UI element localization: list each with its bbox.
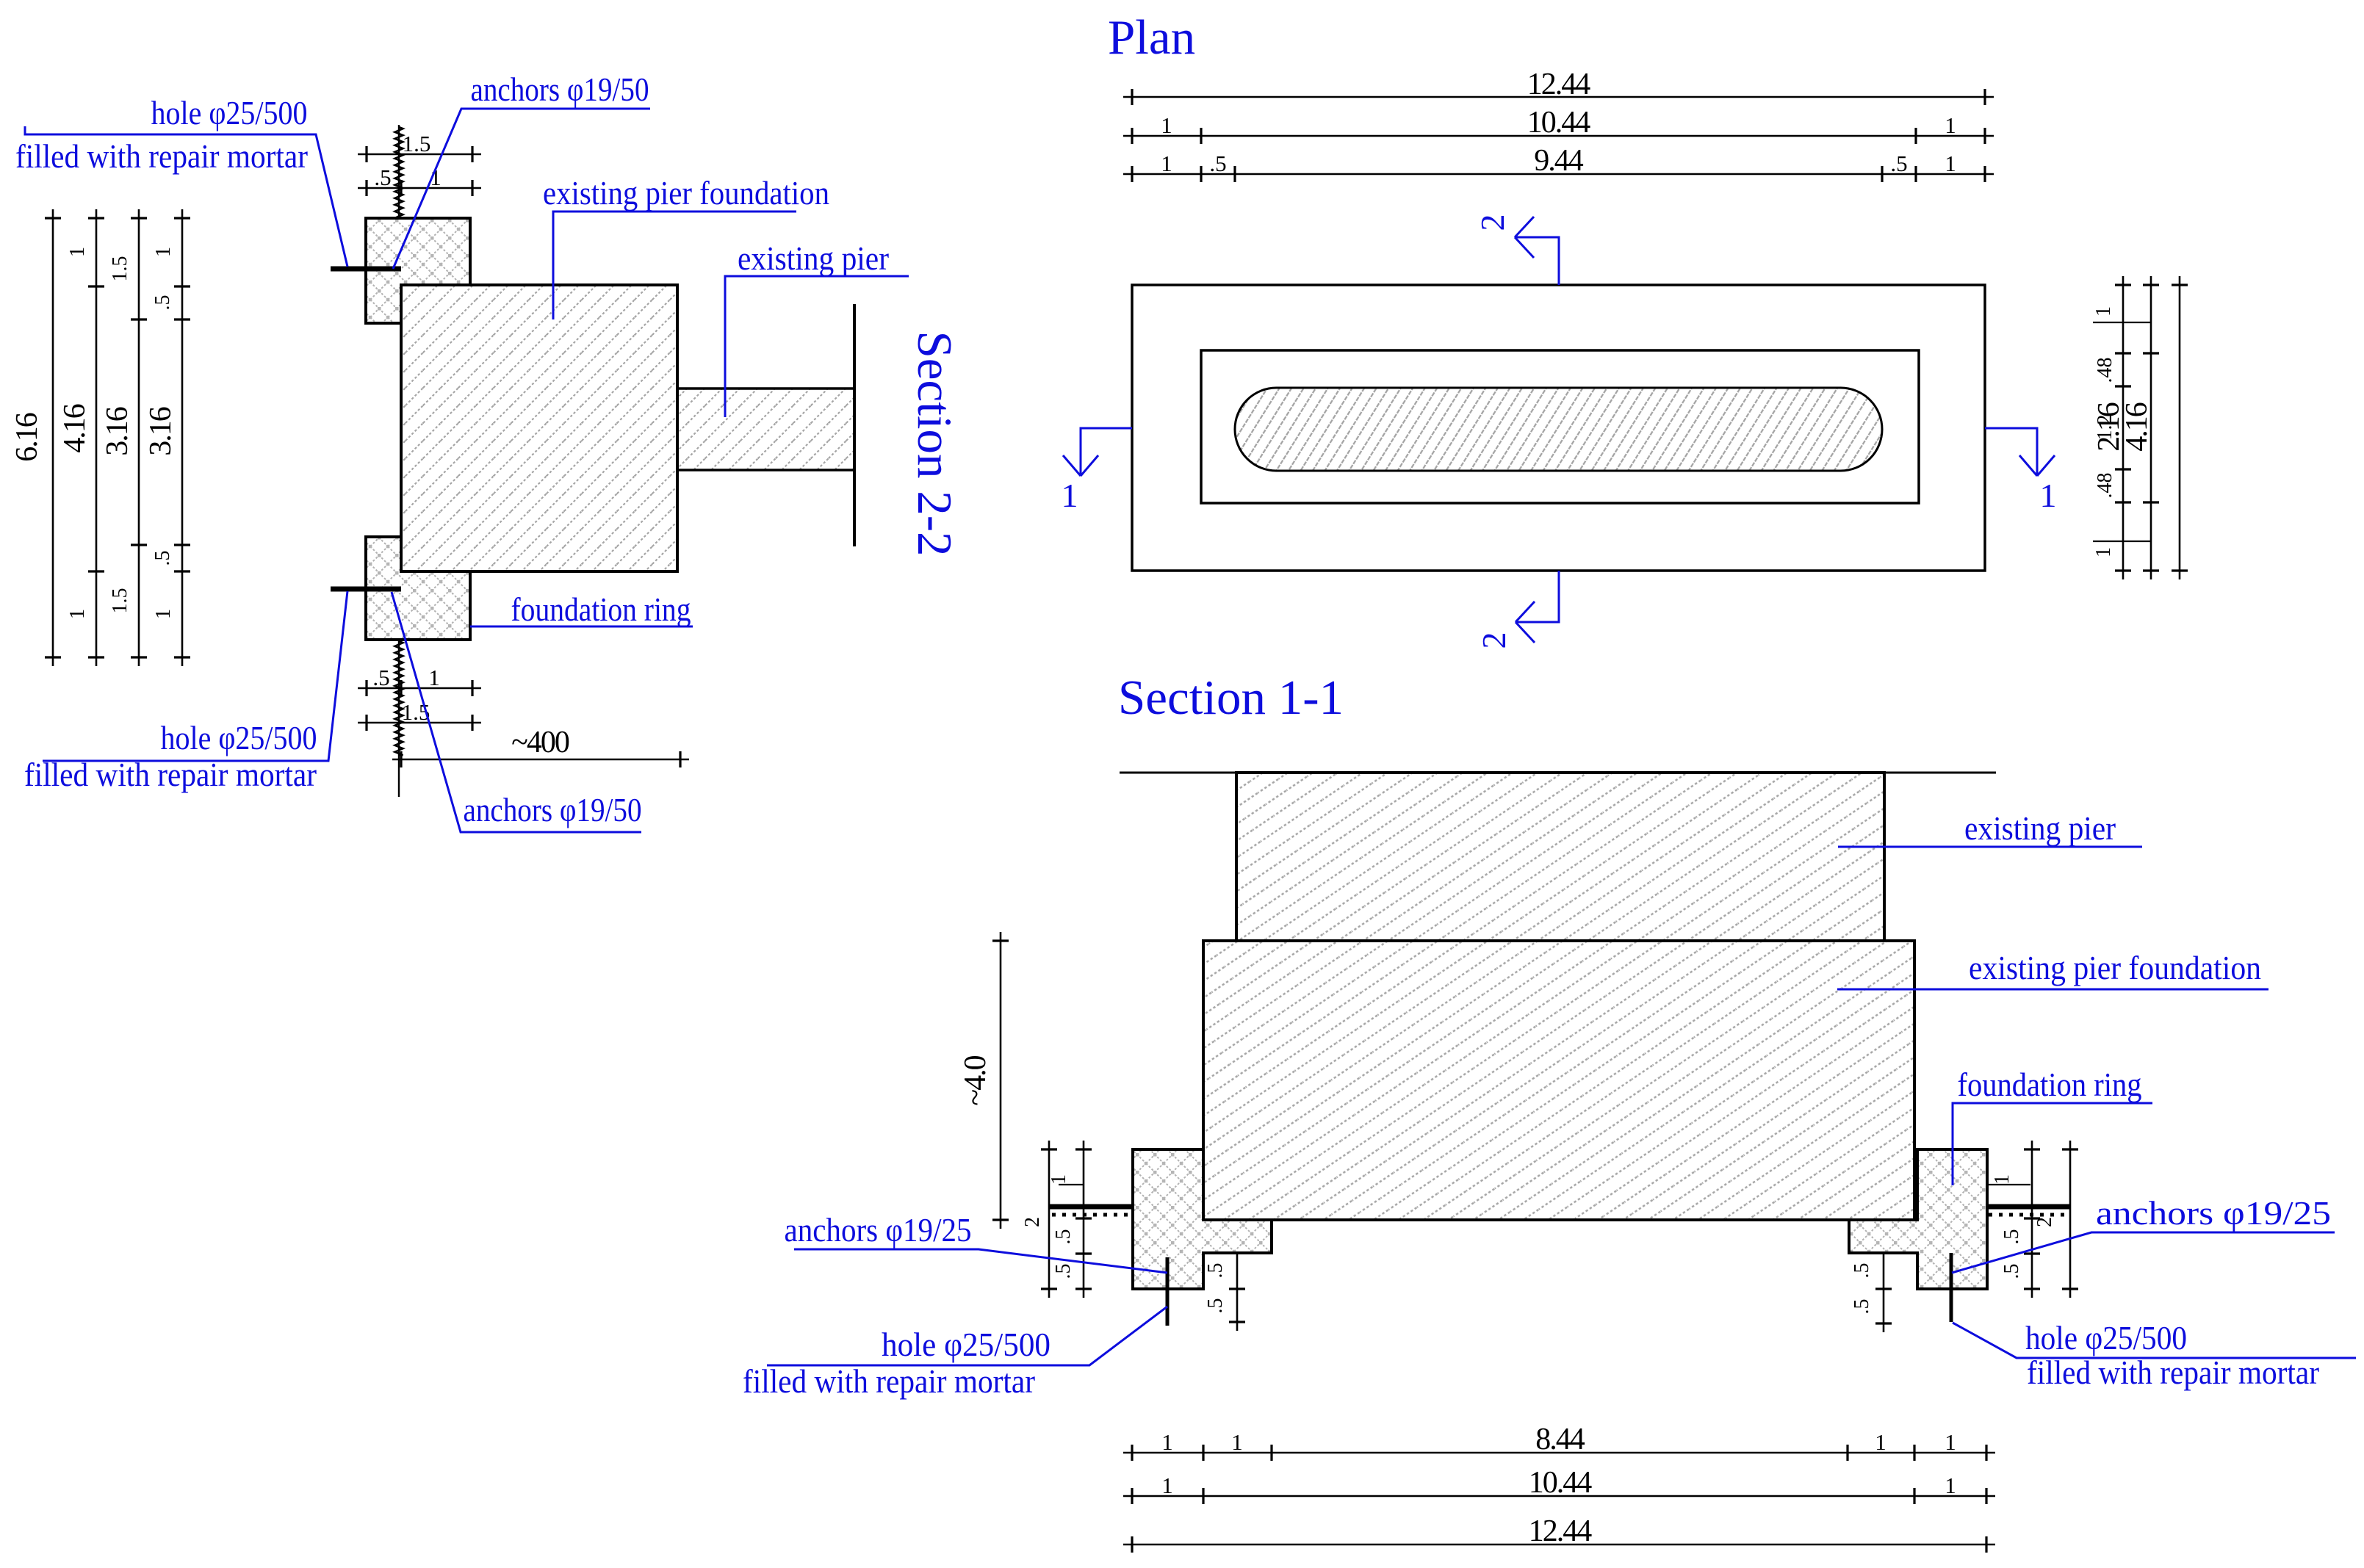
svg-text:~4.0: ~4.0 [959,1055,992,1105]
svg-text:Section 1-1: Section 1-1 [1118,671,1344,725]
svg-text:hole φ25/500: hole φ25/500 [2025,1319,2187,1356]
svg-text:hole φ25/500: hole φ25/500 [161,719,317,756]
svg-text:.5: .5 [151,551,174,566]
svg-text:foundation ring: foundation ring [511,590,691,628]
foundation ring (bottom, cross-hatched) [366,537,470,640]
right chain 1/.48/1.2/.48/1 [2122,276,2125,579]
svg-text:12.44: 12.44 [1527,68,1591,101]
dimension line 1/10.44/1 [1123,135,1994,137]
right chain 4.16 [2179,276,2181,579]
dimension line 1.5 (top) [358,153,481,156]
svg-text:9.44: 9.44 [1534,144,1584,178]
section cut symbol 2 (bottom) [1516,571,1559,643]
mini leader for top 1 [2093,322,2151,323]
svg-text:2: 2 [2033,1217,2056,1227]
svg-text:3.16: 3.16 [101,407,134,456]
svg-text:existing pier foundation: existing pier foundation [1969,949,2261,986]
right chain 2.16 [2150,276,2152,579]
bottom dim line 1/1/8.44/1/1 [1123,1452,1995,1454]
svg-text:~400: ~400 [511,726,569,759]
svg-text:hole φ25/500: hole φ25/500 [151,94,308,131]
plan middle rectangle (existing pier foundation) [1201,350,1919,503]
chain 2 (left outer) [1048,1141,1051,1298]
existing pier foundation (hatched) [1203,941,1914,1220]
section cut symbol 1 (right) [1985,428,2055,476]
foundation ring (top, cross-hatched) [366,218,470,323]
plan stadium (existing pier, hatched) [1235,388,1882,471]
hole line left [1166,1257,1170,1326]
vertical chain 6.16 [52,209,54,666]
svg-text:8.44: 8.44 [1535,1423,1585,1456]
svg-text:1: 1 [1945,1429,1956,1455]
existing pier foundation body (hatched square) [401,285,677,571]
section cut symbol 1 (left) [1063,428,1132,476]
svg-text:foundation ring: foundation ring [1958,1066,2142,1103]
svg-text:.48: .48 [2094,358,2116,383]
svg-text:.5: .5 [151,295,174,311]
svg-text:6.16: 6.16 [10,413,44,462]
soil bar left [1049,1204,1133,1210]
svg-text:hole φ25/500: hole φ25/500 [882,1326,1051,1363]
svg-text:.5: .5 [1851,1299,1873,1315]
foundation ring right (cross-hatched) [1849,1149,1987,1289]
svg-text:1: 1 [1161,1429,1173,1455]
mini leader for bottom 1 [2093,541,2151,542]
svg-text:1: 1 [2092,306,2115,317]
svg-text:1.5: 1.5 [109,256,131,282]
dimension line 1/.5/9.44/.5/1 [1123,173,1994,176]
svg-text:.5: .5 [1204,1263,1227,1279]
svg-text:.5: .5 [1052,1264,1075,1279]
svg-text:.5: .5 [2000,1264,2023,1279]
svg-text:1: 1 [1161,112,1172,138]
anchor bar (top) [331,267,401,272]
soil zigzag (bottom) [398,640,400,797]
dimension line .5/1 (top) [358,187,481,189]
svg-text:anchors φ19/25: anchors φ19/25 [2096,1194,2331,1232]
svg-text:1: 1 [1048,1174,1070,1185]
svg-text:filled with repair mortar: filled with repair mortar [2027,1354,2319,1391]
soil bar right [1987,1204,2070,1210]
svg-text:10.44: 10.44 [1529,1466,1593,1500]
chain .5/.5 (left step) [1236,1253,1239,1331]
svg-text:1: 1 [1875,1429,1886,1455]
svg-text:1: 1 [152,609,175,619]
svg-text:1: 1 [1945,112,1956,138]
pier break line (top) [1120,772,1996,774]
svg-text:existing pier: existing pier [738,239,889,277]
svg-text:.5: .5 [1209,151,1226,176]
vertical chain 1.5/3.16/1.5 [138,209,140,666]
svg-text:1: 1 [1062,477,1078,514]
svg-text:2: 2 [1475,632,1513,649]
existing pier (hatched) [1236,773,1884,941]
svg-text:1.5: 1.5 [403,131,431,156]
svg-text:Section 2-2: Section 2-2 [907,330,962,556]
hole line right [1950,1253,1953,1322]
bottom dim line 12.44 [1123,1544,1995,1546]
dimension line 12.44 (top) [1123,96,1994,98]
svg-text:.5: .5 [1052,1229,1075,1245]
svg-text:1: 1 [428,665,440,690]
svg-text:anchors φ19/25: anchors φ19/25 [785,1211,972,1249]
bottom dim line 1/10.44/1 [1123,1495,1995,1497]
svg-text:anchors φ19/50: anchors φ19/50 [464,791,642,828]
svg-text:existing pier: existing pier [1964,809,2116,847]
svg-text:10.44: 10.44 [1527,106,1591,140]
svg-text:1: 1 [1161,151,1172,176]
svg-text:anchors φ19/50: anchors φ19/50 [471,71,649,108]
chain 2 (right outer) [2069,1141,2072,1298]
dimension line .5/1 (bottom) [358,687,481,690]
svg-text:existing pier foundation: existing pier foundation [543,174,829,212]
pier cut line [853,304,856,546]
svg-text:filled with repair mortar: filled with repair mortar [15,137,308,175]
svg-text:.5: .5 [2000,1229,2023,1245]
svg-text:3.16: 3.16 [144,407,178,456]
svg-text:1: 1 [152,247,175,257]
svg-text:1: 1 [1991,1174,2014,1185]
dimension line ~400 [392,759,689,761]
svg-text:.5: .5 [374,165,391,190]
svg-text:1: 1 [2040,477,2057,514]
svg-text:.5: .5 [1204,1298,1227,1314]
vertical chain 1/4.16/1 [96,209,98,666]
vertical chain 1/.5/3.16/.5/1 [181,209,184,666]
dimension line 1.5 (bottom) [358,722,481,724]
svg-text:.5: .5 [1851,1263,1873,1279]
svg-text:1.5: 1.5 [109,588,131,614]
svg-text:2: 2 [1021,1217,1044,1227]
existing pier stub (hatched bar) [677,389,854,470]
svg-text:4.16: 4.16 [2120,402,2154,452]
svg-text:1: 1 [66,247,89,257]
svg-text:.48: .48 [2094,473,2116,499]
svg-text:1: 1 [2092,547,2115,557]
svg-text:filled with repair mortar: filled with repair mortar [743,1362,1035,1400]
svg-text:1: 1 [1161,1473,1173,1498]
svg-text:1: 1 [1945,1473,1956,1498]
svg-text:1: 1 [1231,1429,1243,1455]
soil zigzag (top) [398,125,400,218]
svg-text:Plan: Plan [1108,10,1195,65]
chain 1/.5/.5 (left inner) [1083,1141,1085,1298]
chain .5/.5 (right step) [1883,1253,1885,1332]
plan outer rectangle (foundation ring outline) [1132,285,1985,571]
anchor bar (bottom) [331,587,401,592]
svg-text:4.16: 4.16 [58,404,92,453]
section cut symbol 2 (top) [1515,217,1559,285]
foundation ring left (cross-hatched) [1133,1149,1272,1289]
svg-text:1: 1 [1945,151,1956,176]
svg-text:.5: .5 [372,665,389,690]
svg-text:.5: .5 [1890,151,1907,176]
svg-text:2: 2 [1474,214,1511,231]
chain 1/.5/.5 (right inner) [2031,1141,2033,1298]
svg-text:12.44: 12.44 [1529,1514,1593,1548]
chain ~4.0 [1000,932,1002,1229]
svg-text:1: 1 [66,609,89,619]
